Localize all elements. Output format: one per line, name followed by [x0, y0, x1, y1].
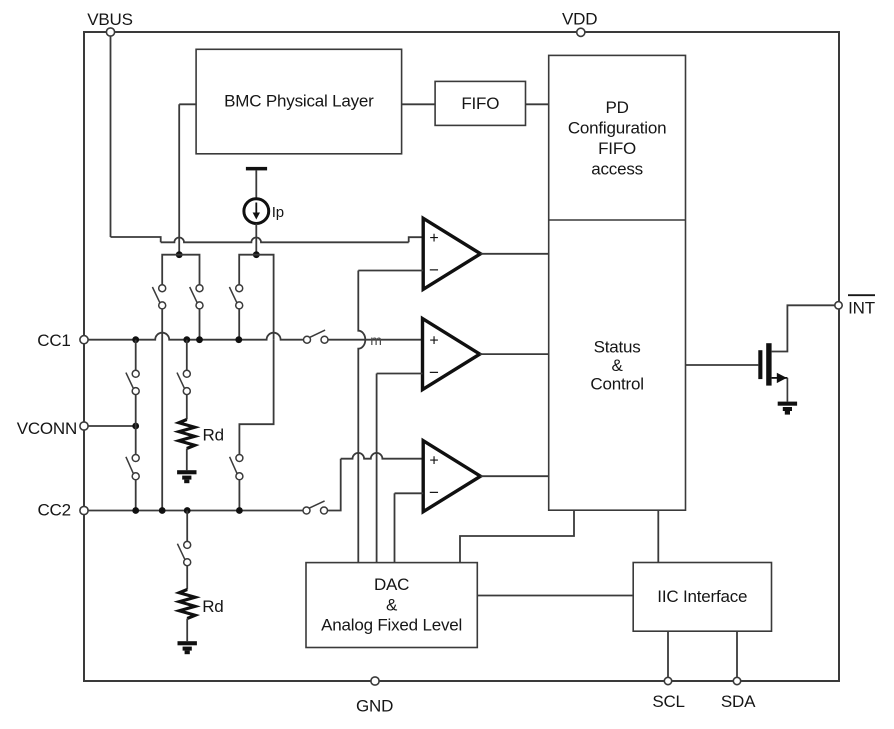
wire SW7 down to CC2	[135, 480, 137, 511]
wire Status to transistor Q1 gate	[686, 364, 759, 366]
junction dot CC2/SW7	[132, 507, 139, 514]
pin CC1 node	[80, 336, 88, 344]
wire VCONN to switch SW7	[135, 426, 137, 455]
svg-text:VBUS: VBUS	[87, 10, 133, 29]
junction dot bracket right feed	[253, 251, 260, 258]
svg-text:−: −	[429, 261, 439, 280]
svg-text:PD: PD	[605, 98, 628, 117]
wire Q1 source with arrow	[772, 373, 788, 402]
wire U2 - input from DAC	[377, 374, 423, 563]
switch SW4 (Ip to CC2 branch)	[230, 455, 243, 480]
pin VBUS node	[106, 28, 114, 36]
switch SW5 (CC1 measure)	[304, 330, 329, 343]
comparator U3 (CC2)	[423, 441, 480, 512]
junction dot CC1/Rd chain	[183, 336, 190, 343]
wire BMC Physical Layer left pin down to bracket	[179, 104, 196, 254]
wire R1 to ground	[186, 449, 188, 471]
svg-text:Rd: Rd	[202, 597, 223, 616]
wire Ip right branch jog to CC2 switch	[239, 340, 273, 455]
svg-text:BMC Physical Layer: BMC Physical Layer	[224, 92, 374, 111]
svg-text:VCONN: VCONN	[17, 419, 77, 438]
label Rd (R2)	[202, 597, 223, 616]
switch SW7 (VCONN-CC2)	[126, 455, 139, 480]
svg-text:Ip: Ip	[272, 204, 284, 221]
switch SW9 (CC2 measure)	[303, 501, 328, 514]
pin SDA node	[733, 677, 740, 684]
svg-text:CC1: CC1	[37, 331, 70, 350]
svg-text:FIFO: FIFO	[598, 139, 636, 158]
wire rail to current source Ip	[255, 170, 257, 198]
current source Ip	[244, 199, 269, 224]
svg-text:Control: Control	[590, 375, 643, 394]
wire U1 - input from DAC (vertical hops over CC1 wire)	[358, 271, 423, 563]
svg-text:CC2: CC2	[37, 501, 70, 520]
wire DAC to IIC Interface	[477, 595, 633, 597]
pin GND node	[371, 677, 379, 685]
wire CC1 rail (hops over SW1 and Ip branch verticals)	[88, 333, 304, 340]
switch SW1 (BMC to CC2 branch)	[152, 285, 165, 309]
svg-text:&: &	[612, 356, 624, 375]
switch SW2 (BMC to CC1 branch)	[190, 285, 203, 309]
ground for R1	[177, 470, 196, 483]
pin INT node	[835, 302, 842, 309]
label CC1	[37, 331, 70, 350]
wire SW6 to VCONN	[135, 395, 137, 427]
resistor R1 Rd	[179, 420, 195, 449]
junction dot CC1/VCONN chain	[132, 336, 139, 343]
pin VDD node	[577, 28, 585, 36]
wire SW8 to resistor R1	[186, 395, 188, 420]
svg-text:access: access	[591, 160, 643, 179]
label VBUS	[87, 10, 133, 29]
svg-text:−: −	[429, 363, 439, 382]
wire SW3 down to CC1	[238, 309, 240, 340]
comparator U1 (VBUS)	[423, 218, 480, 289]
wire Status to DAC	[460, 510, 574, 562]
svg-text:DAC: DAC	[374, 575, 409, 594]
wire Q1 drain to INT	[772, 305, 835, 351]
label INT with overline	[848, 295, 875, 317]
wire CC2 to comparator U3 + (hops over DAC feeds)	[327, 453, 423, 511]
svg-text:−: −	[429, 483, 439, 502]
wire IIC to SCL pin	[667, 631, 669, 677]
label SCL	[652, 692, 684, 711]
wire CC1 to comparator U2 +	[328, 339, 423, 341]
wire left bracket	[162, 255, 199, 285]
chip outline border	[84, 32, 839, 681]
wire Ip down to bracket	[255, 224, 257, 255]
wire SW4 down to CC2	[238, 480, 240, 511]
switch SW8 (CC1-Rd)	[177, 370, 190, 394]
junction dot bracket left feed	[176, 251, 183, 258]
svg-text:IIC Interface: IIC Interface	[657, 587, 747, 606]
svg-text:Configuration: Configuration	[568, 119, 667, 138]
wire CC1 down to switch SW8	[186, 340, 188, 371]
label GND	[356, 697, 393, 716]
pin CC2 node	[80, 506, 88, 514]
junction dot CC2/Rd chain	[184, 507, 191, 514]
switch SW10 (CC2-Rd)	[177, 541, 190, 565]
junction dot CC1/SW3	[235, 336, 242, 343]
switch SW3 (Ip to CC1 branch)	[229, 285, 242, 309]
wire IIC to SDA pin	[736, 631, 738, 677]
svg-text:VDD: VDD	[562, 9, 597, 28]
svg-text:Analog Fixed Level: Analog Fixed Level	[321, 615, 462, 634]
ground for R2	[178, 641, 197, 654]
supply rail bar above Ip	[246, 167, 267, 171]
label VDD	[562, 9, 597, 28]
wire VCONN stub	[88, 425, 136, 427]
transistor Q1 gate bar	[758, 350, 762, 379]
wire SW2 down to CC1	[199, 309, 201, 340]
svg-text:Status: Status	[594, 338, 641, 357]
pin SCL node	[664, 677, 671, 684]
wire VBUS to comparator U1 + (hops over BMC feed and Ip feed)	[111, 237, 424, 242]
wire U3 output to Status block	[481, 475, 549, 477]
label m artifact	[370, 332, 381, 348]
wire FIFO to PD block	[526, 103, 549, 105]
svg-text:SCL: SCL	[652, 692, 684, 711]
label VCONN	[17, 419, 77, 438]
wire right bracket	[239, 255, 273, 340]
block PD Configuration FIFO access / Status & Control	[549, 55, 686, 510]
block DAC & Analog Fixed Level	[306, 563, 477, 648]
svg-text:+: +	[429, 452, 438, 469]
label Ip	[272, 204, 284, 221]
switch SW6 (CC1-VCONN)	[126, 370, 139, 394]
svg-text:GND: GND	[356, 697, 393, 716]
wire Status to IIC Interface	[657, 510, 659, 562]
transistor Q1 channel bar	[766, 343, 771, 385]
svg-text:&: &	[386, 596, 398, 615]
label SDA	[721, 692, 756, 711]
wire CC1 to switch SW6	[135, 340, 137, 371]
wire SW1 down to CC2 (crosses CC1)	[161, 309, 163, 511]
ground for Q1 source	[778, 402, 797, 415]
block FIFO	[435, 81, 525, 125]
svg-text:+: +	[429, 332, 438, 349]
comparator U2 (CC1)	[423, 319, 480, 390]
svg-text:FIFO: FIFO	[461, 94, 499, 113]
wire U1 output to Status block	[481, 253, 549, 255]
wire BMC to FIFO	[402, 103, 436, 105]
wire VBUS drop	[110, 36, 112, 237]
block IIC Interface	[633, 563, 771, 632]
block BMC Physical Layer	[196, 49, 402, 154]
junction dot CC2/SW4	[236, 507, 243, 514]
label Rd (R1)	[203, 426, 224, 445]
svg-text:+: +	[429, 230, 438, 247]
wire SW10 to resistor R2	[186, 566, 188, 590]
junction dot VCONN	[132, 423, 139, 430]
wire U3 - input from DAC	[395, 493, 424, 562]
svg-text:m: m	[370, 332, 381, 348]
wire R2 to ground	[186, 619, 188, 642]
svg-text:SDA: SDA	[721, 692, 756, 711]
svg-text:Rd: Rd	[203, 426, 224, 445]
pin VCONN node	[80, 422, 88, 430]
junction dot CC1/SW2	[196, 336, 203, 343]
resistor R2 Rd	[179, 590, 195, 619]
wire CC2 rail	[88, 510, 303, 512]
label CC2	[37, 501, 70, 520]
svg-text:INT: INT	[848, 298, 875, 317]
junction dot CC2/SW1	[159, 507, 166, 514]
wire U2 output to Status block	[480, 353, 549, 355]
wire CC2 down to switch SW10	[186, 511, 188, 542]
